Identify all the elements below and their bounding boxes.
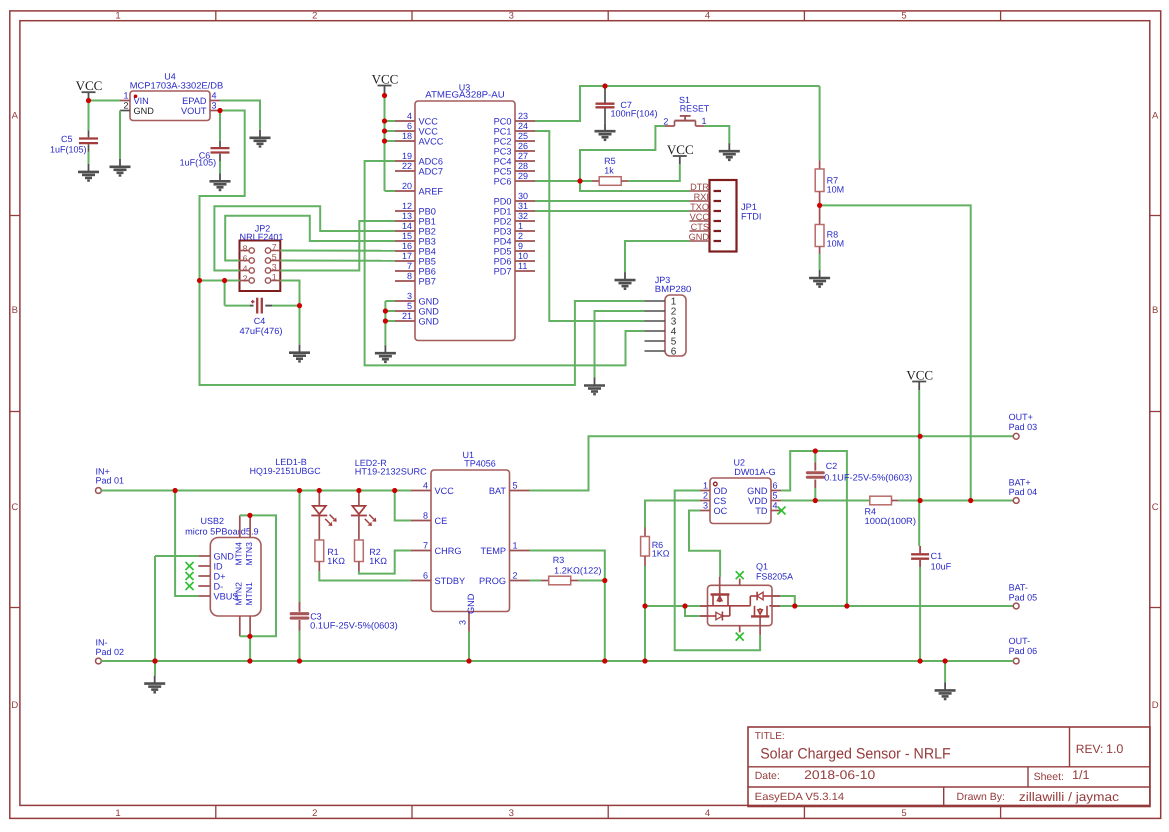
- wire S1 pin1 to ground: [705, 126, 730, 143]
- svg-text:10: 10: [518, 251, 528, 261]
- svg-text:4: 4: [243, 263, 248, 273]
- wire USB2 GND to IN- rail: [155, 556, 198, 661]
- svg-text:16: 16: [402, 241, 412, 251]
- svg-text:Solar Charged Sensor - NRLF: Solar Charged Sensor - NRLF: [760, 745, 951, 762]
- svg-text:D-: D-: [214, 581, 224, 591]
- svg-text:11: 11: [518, 261, 527, 271]
- svg-text:5: 5: [272, 252, 277, 262]
- ground below R8: [809, 270, 830, 287]
- junction GND pin21: [383, 318, 388, 323]
- pad BAT- Pad 05: [1009, 583, 1038, 609]
- svg-text:MCP1703A-3302E/DB: MCP1703A-3302E/DB: [130, 81, 224, 91]
- svg-text:22: 22: [402, 161, 412, 171]
- svg-text:1k: 1k: [604, 165, 614, 175]
- svg-text:VOUT: VOUT: [181, 106, 207, 116]
- svg-text:PB1: PB1: [419, 216, 436, 226]
- svg-text:2018-06-10: 2018-06-10: [804, 768, 875, 782]
- svg-text:1KΩ: 1KΩ: [652, 549, 670, 559]
- svg-text:1: 1: [123, 91, 128, 101]
- svg-text:6: 6: [407, 121, 412, 131]
- svg-text:PROG: PROG: [479, 576, 506, 586]
- svg-text:5: 5: [513, 481, 518, 491]
- svg-text:2: 2: [312, 11, 317, 22]
- ground below JP3 pin2: [584, 378, 605, 395]
- svg-text:EasyEDA V5.3.14: EasyEDA V5.3.14: [755, 791, 845, 803]
- wire OD to Q1 gate: [675, 491, 760, 651]
- wire U2 GND top route: [781, 451, 847, 606]
- wire ADC6 to JP3 pin4: [365, 161, 645, 365]
- svg-text:15: 15: [402, 231, 412, 241]
- wire R5 to VCC: [628, 156, 680, 181]
- svg-text:Pad 03: Pad 03: [1009, 422, 1038, 432]
- svg-text:20: 20: [402, 181, 412, 191]
- junction VCC/U4.1: [86, 98, 91, 103]
- svg-text:1.0: 1.0: [1106, 742, 1123, 756]
- ground below C4: [289, 345, 310, 362]
- junction BAT+ / divider: [968, 498, 973, 503]
- svg-text:3: 3: [509, 11, 514, 22]
- svg-text:TXO: TXO: [690, 202, 709, 212]
- svg-text:VCC: VCC: [690, 212, 710, 222]
- svg-text:PC2: PC2: [494, 136, 512, 146]
- wire branch down to C4: [225, 281, 250, 306]
- svg-text:CTS: CTS: [691, 222, 709, 232]
- svg-text:R3: R3: [553, 555, 565, 565]
- svg-text:VCC: VCC: [419, 126, 439, 136]
- capacitor C5 1uF(105): [50, 131, 98, 164]
- svg-text:RESET: RESET: [680, 104, 710, 114]
- no-connect X Q1 bottom: [736, 633, 744, 641]
- svg-text:micro 5PBoard5.9: micro 5PBoard5.9: [185, 526, 259, 536]
- svg-text:C2: C2: [826, 461, 838, 471]
- svg-text:PB3: PB3: [419, 236, 436, 246]
- resistor R7 10M: [815, 86, 844, 205]
- wire U4 GND pin to ground: [119, 111, 121, 159]
- wire U1 GND to rail: [468, 632, 470, 662]
- wire PC6 to reset junction: [535, 180, 580, 182]
- svg-text:PB6: PB6: [419, 266, 436, 276]
- svg-text:PD0: PD0: [494, 196, 512, 206]
- wire OUT- ground tap: [944, 661, 946, 682]
- svg-text:6: 6: [773, 481, 778, 491]
- svg-text:VCC: VCC: [76, 78, 103, 93]
- svg-text:IN-: IN-: [96, 637, 108, 647]
- svg-text:1: 1: [513, 541, 518, 551]
- junction C7 top: [602, 83, 607, 88]
- svg-text:Pad 05: Pad 05: [1009, 592, 1038, 602]
- ground below U3: [375, 345, 396, 362]
- svg-text:JP1: JP1: [741, 202, 757, 212]
- svg-text:1: 1: [115, 11, 120, 22]
- junction GND rail C1: [918, 658, 923, 663]
- svg-text:R4: R4: [865, 506, 877, 516]
- svg-text:2: 2: [518, 231, 523, 241]
- svg-text:ID: ID: [214, 561, 224, 571]
- junction C4 branch: [222, 278, 227, 283]
- svg-text:ADC6: ADC6: [419, 156, 444, 166]
- wire TEMP down to rail: [530, 551, 605, 662]
- wire 3.3V rail to JP2 pin2: [200, 280, 240, 282]
- svg-text:2: 2: [663, 116, 668, 126]
- svg-text:PB0: PB0: [419, 206, 436, 216]
- svg-text:3: 3: [509, 808, 514, 819]
- svg-text:21: 21: [402, 311, 412, 321]
- svg-text:TP4056: TP4056: [464, 459, 496, 469]
- junction VCC pin4: [382, 118, 387, 123]
- no-connect X on D-: [186, 582, 194, 590]
- svg-text:OUT-: OUT-: [1009, 636, 1031, 646]
- mcu U3 ATMEGA328P-AU: [395, 83, 535, 341]
- svg-text:OD: OD: [714, 486, 728, 496]
- wire IN+ to USB2 VBUS: [175, 491, 198, 597]
- svg-text:HQ19-2151UBGC: HQ19-2151UBGC: [250, 466, 321, 476]
- junction GND rail shell: [247, 658, 252, 663]
- svg-text:PC3: PC3: [494, 146, 512, 156]
- wire PB3 to JP2 pin6: [225, 216, 395, 261]
- svg-text:PD4: PD4: [494, 236, 512, 246]
- svg-text:30: 30: [518, 191, 528, 201]
- svg-text:8: 8: [243, 243, 248, 253]
- junction JP2 rail left: [197, 278, 202, 283]
- svg-text:4: 4: [407, 111, 412, 121]
- svg-text:8: 8: [423, 511, 428, 521]
- svg-text:7: 7: [272, 242, 277, 252]
- wire U3 GND pins to ground: [385, 301, 395, 345]
- resistor R8 10M: [815, 205, 844, 270]
- power flag VCC (U3): [372, 71, 399, 95]
- wire PD0 to JP1 RXI: [535, 200, 690, 202]
- svg-text:MTN2: MTN2: [233, 582, 243, 606]
- junction BAT- / U2 GND: [844, 603, 849, 608]
- wire VDD row: [781, 500, 870, 502]
- svg-text:1uF(105): 1uF(105): [180, 158, 217, 168]
- junction below VCC flag: [382, 93, 387, 98]
- junction R3/TEMP: [602, 578, 607, 583]
- capacitor C6 1uF(105): [180, 111, 230, 174]
- svg-text:4: 4: [773, 501, 778, 511]
- junction IN+ LED1: [317, 488, 322, 493]
- no-connect X on TD: [778, 507, 786, 515]
- junction IN+ LED2: [356, 488, 361, 493]
- svg-text:A: A: [12, 111, 19, 122]
- svg-text:VDD: VDD: [748, 496, 768, 506]
- wire EPAD to ground: [220, 101, 260, 130]
- ground on USB branch: [144, 661, 165, 692]
- ground below EPAD wire: [250, 130, 271, 147]
- svg-text:PB4: PB4: [419, 246, 436, 256]
- no-connect X on ID: [186, 562, 194, 570]
- svg-text:D: D: [1152, 700, 1159, 711]
- svg-text:C4: C4: [254, 316, 266, 326]
- svg-text:Date:: Date:: [755, 770, 780, 782]
- svg-text:CS: CS: [714, 496, 727, 506]
- svg-text:Pad 02: Pad 02: [96, 647, 125, 657]
- svg-text:ADC7: ADC7: [419, 166, 444, 176]
- charger U1 TP4056: [411, 450, 530, 631]
- wire R1 to STDBY: [319, 571, 411, 581]
- junction VCC pin6: [382, 128, 387, 133]
- svg-text:12: 12: [402, 201, 412, 211]
- ground below C6: [210, 173, 231, 190]
- svg-text:4: 4: [423, 481, 428, 491]
- svg-text:MTN3: MTN3: [244, 542, 254, 566]
- svg-text:FS8205A: FS8205A: [756, 572, 793, 582]
- wire JP2 pin1 to C4 right / ground: [272, 281, 300, 345]
- header JP2 NRLF2401: [240, 224, 284, 292]
- wire IN+ rail: [101, 490, 411, 492]
- wire VCC to C5: [88, 101, 90, 131]
- junction GND rail USB: [152, 658, 157, 663]
- wire JP1 GND to ground: [625, 241, 690, 272]
- svg-text:FTDI: FTDI: [741, 212, 761, 222]
- svg-text:PD1: PD1: [494, 206, 512, 216]
- svg-text:PB7: PB7: [419, 276, 436, 286]
- svg-text:PC6: PC6: [494, 176, 512, 186]
- wire PC0 to C7/R7 net: [535, 86, 820, 121]
- junction IN+ CE branch: [392, 488, 397, 493]
- pushbutton S1 RESET: [663, 95, 709, 126]
- resistor R5 1k: [580, 156, 628, 185]
- svg-text:8: 8: [407, 271, 412, 281]
- svg-text:1.2KΩ(122): 1.2KΩ(122): [554, 566, 602, 576]
- svg-text:27: 27: [518, 151, 528, 161]
- junction BAT+ / C1: [918, 498, 923, 503]
- junction MTN top: [247, 513, 252, 518]
- svg-text:23: 23: [518, 111, 528, 121]
- svg-text:18: 18: [402, 131, 412, 141]
- power flag VCC (output): [906, 367, 933, 390]
- svg-text:USB2: USB2: [201, 516, 225, 526]
- svg-text:3: 3: [703, 501, 708, 511]
- svg-text:0.1UF-25V-5%(0603): 0.1UF-25V-5%(0603): [824, 473, 912, 483]
- svg-text:17: 17: [402, 251, 412, 261]
- resistor R2 1KΩ: [355, 540, 388, 571]
- wire BAT to OUT+ row: [530, 436, 1014, 490]
- svg-text:1: 1: [115, 808, 120, 819]
- svg-text:Q1: Q1: [756, 562, 768, 572]
- svg-text:VCC: VCC: [372, 71, 399, 86]
- capacitor C4 47uF(476) polarized: [240, 298, 283, 336]
- svg-text:DW01A-G: DW01A-G: [734, 467, 776, 477]
- svg-text:PC5: PC5: [494, 166, 512, 176]
- svg-text:Sheet:: Sheet:: [1034, 771, 1064, 783]
- svg-text:14: 14: [402, 221, 412, 231]
- wire AREF branch: [384, 161, 386, 191]
- svg-text:32: 32: [518, 211, 528, 221]
- svg-text:BAT-: BAT-: [1009, 583, 1028, 593]
- svg-text:1/1: 1/1: [1072, 768, 1089, 782]
- svg-text:2: 2: [243, 273, 248, 283]
- svg-text:5: 5: [407, 301, 412, 311]
- junction R6/BAT- rail: [642, 603, 647, 608]
- svg-text:VCC: VCC: [667, 142, 694, 157]
- svg-text:Pad 04: Pad 04: [1009, 487, 1038, 497]
- wire OC to Q1 gate1: [689, 511, 720, 577]
- svg-text:1: 1: [702, 116, 707, 126]
- svg-text:HT19-2132SURC: HT19-2132SURC: [355, 467, 428, 477]
- svg-text:VCC: VCC: [419, 116, 439, 126]
- mosfet Q1 FS8205A: [700, 562, 793, 636]
- svg-text:10uF: 10uF: [931, 562, 952, 572]
- svg-text:PC0: PC0: [494, 116, 512, 126]
- pad OUT- Pad 06: [1009, 636, 1038, 664]
- svg-text:TD: TD: [755, 506, 768, 516]
- svg-text:7: 7: [423, 541, 428, 551]
- svg-text:PB2: PB2: [419, 226, 436, 236]
- svg-text:1: 1: [518, 221, 523, 231]
- junction GND rail ground tap: [943, 658, 948, 663]
- svg-text:PD3: PD3: [494, 226, 512, 236]
- ground below C5: [78, 164, 99, 181]
- led LED2-R HT19-2132SURC: [351, 458, 427, 540]
- svg-text:GND: GND: [134, 106, 155, 116]
- svg-text:BMP280: BMP280: [655, 284, 692, 294]
- svg-text:1: 1: [272, 272, 277, 282]
- svg-text:19: 19: [402, 151, 412, 161]
- svg-text:RXI: RXI: [694, 192, 709, 202]
- svg-text:GND: GND: [419, 306, 440, 316]
- svg-text:6: 6: [671, 346, 677, 357]
- svg-text:5: 5: [901, 808, 906, 819]
- svg-text:0.1UF-25V-5%(0603): 0.1UF-25V-5%(0603): [310, 621, 398, 631]
- svg-text:13: 13: [402, 211, 412, 221]
- svg-text:GND: GND: [747, 486, 768, 496]
- svg-text:D: D: [11, 700, 18, 711]
- svg-text:C: C: [11, 502, 18, 513]
- svg-text:BAT: BAT: [489, 486, 507, 496]
- svg-text:OUT+: OUT+: [1009, 412, 1033, 422]
- svg-text:GND: GND: [419, 316, 440, 326]
- svg-text:26: 26: [518, 141, 528, 151]
- svg-text:1: 1: [703, 481, 708, 491]
- svg-text:28: 28: [518, 161, 528, 171]
- svg-text:VCC: VCC: [435, 486, 455, 496]
- svg-text:BAT+: BAT+: [1009, 477, 1031, 487]
- svg-text:PD7: PD7: [494, 266, 512, 276]
- svg-text:2: 2: [703, 491, 708, 501]
- wire USB2 shell strap: [240, 515, 276, 661]
- svg-text:REV:: REV:: [1076, 742, 1104, 756]
- svg-text:A: A: [1152, 111, 1159, 122]
- junction TEMP rail: [602, 658, 607, 663]
- junction reset net: [577, 178, 582, 183]
- junction Q1 right pins: [792, 603, 797, 608]
- svg-text:U2: U2: [734, 458, 746, 468]
- svg-text:GND: GND: [689, 232, 710, 242]
- pad IN- Pad 02: [96, 637, 125, 664]
- svg-text:NRLF2401: NRLF2401: [240, 232, 284, 242]
- svg-text:1uF(105): 1uF(105): [50, 144, 87, 154]
- resistor R4 100Ω(100R): [865, 496, 1014, 526]
- capacitor C7 100nF(104): [596, 86, 658, 123]
- svg-text:Pad 06: Pad 06: [1009, 646, 1038, 656]
- capacitor C2 0.1UF-25V-5%(0603): [807, 451, 912, 501]
- svg-text:PD2: PD2: [494, 216, 512, 226]
- wire R7/R8 divider to BAT+ column: [820, 205, 971, 501]
- ground near OUT-: [935, 682, 956, 699]
- svg-text:25: 25: [518, 131, 528, 141]
- resistor R1 1KΩ: [315, 540, 345, 571]
- junction Q1 left pins: [682, 603, 687, 608]
- svg-text:CE: CE: [435, 516, 448, 526]
- wire BAT- rail: [645, 596, 1013, 616]
- wire reset junction to JP1 DTR: [580, 181, 690, 191]
- regulator U4 MCP1703A-3302E/DB: [120, 72, 223, 121]
- ground below U4 pin2: [110, 159, 131, 176]
- header JP1 FTDI: [689, 180, 762, 252]
- wire CE branch: [395, 491, 411, 521]
- usb connector USB2 micro 5PBoard5.9: [185, 515, 261, 636]
- title block: [748, 727, 1150, 807]
- no-connect X Q1 top: [736, 571, 744, 579]
- svg-text:10M: 10M: [827, 185, 845, 195]
- svg-text:PB5: PB5: [419, 256, 436, 266]
- wire 3.3V rail down to JP3 pin1: [200, 281, 645, 386]
- svg-text:GND: GND: [466, 593, 476, 614]
- junction U1 GND rail: [466, 658, 471, 663]
- junction C2 bottom: [813, 498, 818, 503]
- junction IN+ C3: [297, 488, 302, 493]
- svg-text:3: 3: [212, 101, 217, 111]
- svg-text:C: C: [1152, 502, 1159, 513]
- junction AVCC pin18: [382, 138, 387, 143]
- wire VOUT 3.3V rail to JP2 area: [200, 111, 245, 281]
- svg-text:4: 4: [212, 91, 217, 101]
- pad BAT+ Pad 04: [1009, 477, 1038, 503]
- svg-text:31: 31: [518, 201, 528, 211]
- ground below S1: [719, 143, 740, 160]
- resistor R3 1.2KΩ(122): [530, 555, 605, 585]
- junction U4 VOUT: [217, 108, 222, 113]
- svg-text:D+: D+: [214, 571, 226, 581]
- svg-text:6: 6: [423, 571, 428, 581]
- wire GND rail IN- to OUT-: [101, 660, 1013, 662]
- svg-text:47uF(476): 47uF(476): [240, 326, 283, 336]
- svg-text:TEMP: TEMP: [480, 546, 506, 556]
- svg-text:EPAD: EPAD: [182, 96, 207, 106]
- capacitor C3 0.1UF-25V-5%(0603): [291, 491, 398, 662]
- pad OUT+ Pad 03: [1009, 412, 1038, 439]
- svg-text:7: 7: [407, 261, 412, 271]
- svg-text:10M: 10M: [827, 239, 845, 249]
- power flag VCC (U4 input): [76, 78, 103, 101]
- svg-text:4: 4: [705, 11, 710, 22]
- junction GND pin5: [383, 308, 388, 313]
- wire PB5 to JP2 pin5: [280, 260, 395, 262]
- svg-text:AVCC: AVCC: [419, 136, 444, 146]
- svg-text:2: 2: [312, 808, 317, 819]
- svg-text:PC4: PC4: [494, 156, 512, 166]
- wire VCC to U4 VIN: [89, 100, 121, 102]
- svg-text:B: B: [1152, 305, 1158, 316]
- svg-text:3: 3: [407, 291, 412, 301]
- junction MTN bottom: [247, 634, 252, 639]
- svg-text:Drawn By:: Drawn By:: [957, 791, 1005, 803]
- svg-text:100nF(104): 100nF(104): [611, 109, 658, 119]
- wire CS to R6: [645, 501, 700, 528]
- svg-text:2: 2: [123, 101, 128, 111]
- svg-text:3: 3: [458, 620, 468, 625]
- wire PD1 to JP1 TXO: [535, 210, 690, 212]
- wire PB1 to JP2 pin3: [280, 221, 395, 271]
- svg-text:PD6: PD6: [494, 256, 512, 266]
- led LED1-B HQ19-2151UBGC: [250, 457, 337, 540]
- svg-text:4: 4: [705, 808, 710, 819]
- resistor R6 1KΩ: [641, 528, 670, 662]
- header JP3 BMP280: [645, 275, 692, 357]
- svg-text:3: 3: [272, 262, 277, 272]
- svg-text:100Ω(100R): 100Ω(100R): [865, 516, 917, 526]
